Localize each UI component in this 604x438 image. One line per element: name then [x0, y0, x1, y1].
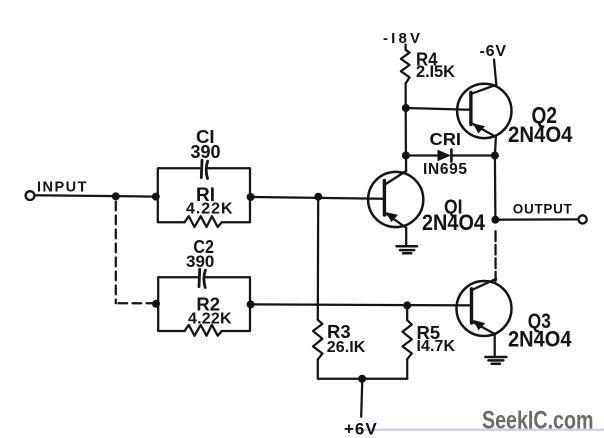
resistor R1 zigzag: [185, 216, 222, 227]
wire dashed output node to Q3: [494, 231, 496, 281]
ground (Q3): [485, 357, 506, 364]
node A (input junction): [112, 192, 120, 200]
svg-text:INPUT: INPUT: [37, 179, 87, 195]
resistor R4 zigzag: [401, 50, 410, 84]
svg-text:390: 390: [191, 142, 221, 162]
node B (R3 tap): [314, 193, 322, 201]
node D (+6V tap): [358, 375, 366, 383]
svg-text:26.IK: 26.IK: [327, 339, 366, 356]
output terminal: [579, 215, 587, 223]
svg-text:-I8V: -I8V: [383, 30, 420, 47]
svg-text:4.22K: 4.22K: [186, 201, 233, 218]
wire node B down to R3: [317, 197, 320, 320]
node F (CR1 left node): [402, 152, 410, 160]
svg-text:-6V: -6V: [480, 43, 507, 60]
svg-text:IN695: IN695: [423, 161, 467, 178]
ground (Q1): [397, 246, 418, 253]
svg-text:CRI: CRI: [430, 129, 462, 149]
transistor Q2: [457, 60, 511, 139]
node box1 right: [247, 193, 255, 201]
wire output: [495, 218, 578, 221]
svg-text:2N4O4: 2N4O4: [508, 326, 572, 351]
wire R4 to CR1 node: [404, 83, 407, 155]
wire R3 bottom: [317, 360, 319, 379]
wire Q1 emitter to ground: [405, 228, 407, 246]
svg-text:4.22K: 4.22K: [188, 311, 232, 328]
transistor Q3: [457, 279, 512, 336]
wire +6V stub: [361, 379, 362, 417]
wire CR1 left segment: [406, 154, 438, 156]
node box1 left: [152, 193, 160, 201]
svg-text:2N4O4: 2N4O4: [508, 122, 573, 147]
svg-text:2N4O4: 2N4O4: [422, 210, 486, 235]
svg-text:SeekIC.com: SeekIC.com: [482, 407, 594, 435]
wire R5 bottom: [406, 359, 408, 379]
wire node E to Q2 base: [406, 108, 471, 110]
capacitor C2: [199, 269, 205, 287]
wire node F to Q1 collector: [405, 156, 407, 172]
wire dashed horizontal to R2 box: [119, 302, 153, 304]
wire -18V stub: [404, 45, 406, 50]
wire dashed vertical from node A: [115, 202, 117, 304]
capacitor C1: [201, 160, 207, 178]
input terminal: [26, 191, 35, 200]
svg-text:OUTPUT: OUTPUT: [513, 202, 573, 217]
wire node G down to output node: [494, 156, 497, 220]
resistor R5 zigzag: [403, 320, 412, 359]
node G (CR1 right node): [491, 152, 499, 160]
wire Q3 emitter to ground: [494, 334, 496, 357]
wire Q2 emitter down to CR1 node: [495, 137, 496, 156]
wire box2 to Q3 base: [251, 304, 472, 305]
resistor R2 zigzag: [185, 325, 222, 336]
svg-text:I4.7K: I4.7K: [417, 338, 456, 355]
transistor Q1: [368, 171, 423, 228]
diode CR1: [438, 150, 452, 162]
resistor R3 zigzag: [313, 320, 322, 360]
box C2/R2 parallel network: [158, 277, 250, 331]
node box2 right: [247, 300, 255, 308]
svg-text:2.I5K: 2.I5K: [416, 63, 455, 81]
scan artifact band: [358, 429, 604, 431]
node C (R5 tap): [403, 301, 411, 309]
wire node C down to R5: [406, 305, 408, 320]
wire bottom rail to +6V: [318, 378, 407, 380]
svg-text:+6V: +6V: [344, 419, 378, 438]
node E (Q2 base node): [402, 104, 410, 112]
node H (output node): [491, 216, 499, 224]
node box2 left: [152, 300, 160, 308]
svg-text:390: 390: [186, 252, 214, 271]
wire CR1 right segment: [451, 154, 495, 156]
wire input to node A: [35, 195, 156, 196]
box C1/R1 parallel network: [158, 168, 250, 222]
wire box1 to Q1 base: [251, 197, 385, 199]
